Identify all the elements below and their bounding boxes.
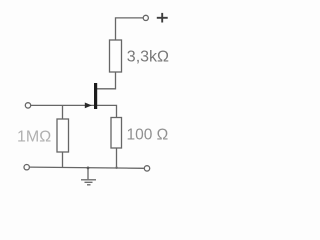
svg-text:3,3kΩ: 3,3kΩ: [127, 49, 169, 66]
svg-text:1MΩ: 1MΩ: [17, 129, 51, 146]
svg-text:100 Ω: 100 Ω: [127, 127, 169, 144]
